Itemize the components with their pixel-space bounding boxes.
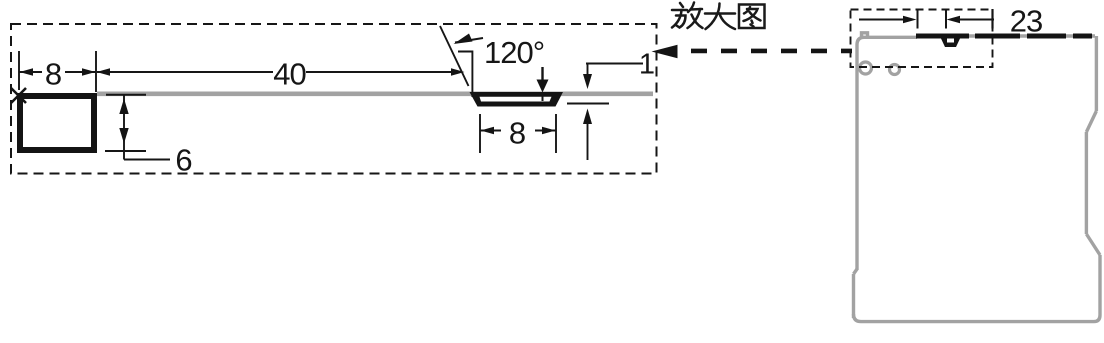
top-left bump (862, 33, 868, 37)
svg-text:40: 40 (273, 57, 306, 92)
right vertical middle (1085, 132, 1088, 234)
top edge gray continuation (916, 34, 1095, 37)
part top edge black segments (916, 34, 1092, 39)
dimension 8 (groove) arrows (480, 130, 501, 132)
left lower vertical (852, 274, 855, 318)
大 (705, 12, 735, 15)
leader arrow onto groove (541, 67, 543, 82)
part outline gray (854, 33, 1101, 322)
bottom-left rounded corner (854, 314, 862, 322)
dimension 23 right arrow and line (947, 16, 961, 24)
gray surface line (detail view) (97, 92, 653, 97)
callout text 放大图 (672, 3, 765, 30)
dimension 40 arrows (97, 68, 111, 76)
dimension 6 bottom tick (105, 150, 146, 152)
small circle feature 1 (860, 62, 872, 74)
top edge gray (862, 36, 917, 39)
top-left rounded corner (857, 37, 864, 45)
dimension 6 vertical line (123, 95, 125, 160)
right vertical upper (1095, 36, 1098, 111)
dimension 6 leader (124, 159, 170, 161)
dimension 1 up arrow (583, 109, 592, 125)
notch rectangle (thick outline) (20, 96, 94, 150)
right chamfer lower (1086, 234, 1100, 255)
dimension 8 (groove) extension lines (480, 114, 556, 153)
dimension 6 arrows (119, 99, 128, 115)
detail view dashed border (11, 24, 657, 174)
dimension 23 ticks (917, 10, 919, 29)
left step (854, 269, 858, 274)
svg-text:1: 1 (639, 49, 655, 81)
svg-text:8: 8 (509, 116, 526, 151)
dimension 40 line (97, 71, 459, 73)
svg-text:8: 8 (45, 57, 62, 92)
right vertical lower (1098, 255, 1101, 315)
callout dashed leader arrow (652, 45, 678, 59)
right chamfer upper (1086, 111, 1096, 132)
dimension 6 top tick (106, 94, 146, 96)
part groove notch (941, 39, 960, 48)
svg-text:120°: 120° (484, 35, 544, 70)
svg-text:6: 6 (175, 143, 192, 178)
chamfer slant construction line (440, 26, 469, 86)
放 (680, 3, 683, 7)
dimension 23 left line and arrow (859, 19, 905, 21)
dimension 40 right extension (bent) (458, 52, 472, 98)
dimension 8 (top left) dimension line and arrows (19, 71, 96, 73)
X corner marker (11, 88, 26, 103)
bottom edge (861, 320, 1094, 323)
dimension 1 top tick (586, 63, 643, 65)
dimension 1 down arrow (587, 64, 589, 75)
图 (739, 5, 765, 29)
part detail dashed rectangle (851, 10, 993, 68)
120 degree leader arrow (455, 38, 483, 43)
part detail rect right-edge solid tick (991, 9, 993, 29)
svg-text:23: 23 (1010, 4, 1042, 39)
left upper vertical (855, 45, 858, 270)
bottom-right rounded corner (1094, 315, 1100, 322)
small circle feature 2 (890, 65, 900, 75)
groove inner white slit (480, 97, 552, 102)
dimension 8 (top left) extension lines (19, 51, 96, 92)
groove shape (detail view) (470, 92, 564, 107)
dimension 1 bottom tick (567, 103, 609, 105)
